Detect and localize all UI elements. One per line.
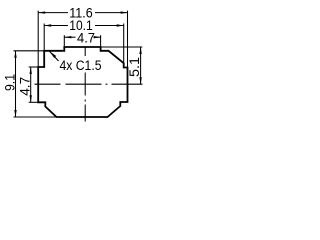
ext 11.6 left [37,11,39,67]
ext 11.6 right [127,11,129,68]
dimension 4.7 top [64,36,100,38]
ext 4.7left top [29,66,39,68]
ext 4.7top left [63,35,65,47]
dimension 9.1 [15,51,17,117]
extension lines [14,11,143,117]
ext 10.1 left [43,24,45,51]
dimension 4.7 left [30,67,32,102]
svg-text:4x C1.5: 4x C1.5 [60,58,102,73]
svg-text:9.1: 9.1 [3,74,18,91]
svg-text:4.7: 4.7 [18,77,33,96]
ext 9.1 top [14,50,45,52]
svg-text:5.1: 5.1 [127,57,142,77]
dimension 10.1 [44,25,124,27]
ext 4.7top right [100,35,102,47]
ext 9.1 bottom [14,116,57,118]
centerline horizontal [35,83,143,85]
dimension 5.1 [140,47,142,84]
part outline [38,47,127,117]
leader 4x C1.5 [50,51,59,61]
ext 5.1 top (collinear with tab top) [101,46,143,48]
dimension 11.6 [38,12,127,14]
centerline vertical [84,47,86,122]
ext 4.7left bottom [29,101,39,103]
svg-text:4.7: 4.7 [77,31,95,46]
ext 10.1 right [123,24,125,64]
